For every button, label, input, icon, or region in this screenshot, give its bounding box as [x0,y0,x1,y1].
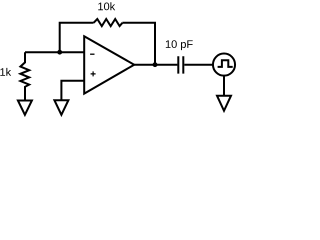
ground (below pulse source) [217,96,231,111]
wire input horizontal to inverting input [25,51,84,53]
pulse source V1 circle [213,54,235,76]
ground (below R1) [18,101,32,115]
op-amp plus sign [91,71,96,76]
resistor R1 1k vertical [20,52,29,100]
label 10k [98,2,115,10]
op-amp minus sign [90,53,94,55]
resistor R2 10k horizontal [94,19,123,26]
capacitor C1 10 pF plates [178,56,183,73]
node B junction dot (output) [153,62,158,67]
ground (non-inverting input) [54,100,68,115]
wire feedback loop [60,23,155,65]
pulse waveform symbol inside V1 [218,60,233,67]
node A junction dot (inverting input) [57,50,62,55]
op-amp U1 triangle [84,36,134,93]
wire output [134,64,177,66]
wire pulse source to ground [223,76,225,96]
label 1k [0,68,11,76]
wire non-inverting input to ground [61,81,84,101]
label 10 pF [166,40,193,50]
wire capacitor to pulse source [184,64,213,66]
